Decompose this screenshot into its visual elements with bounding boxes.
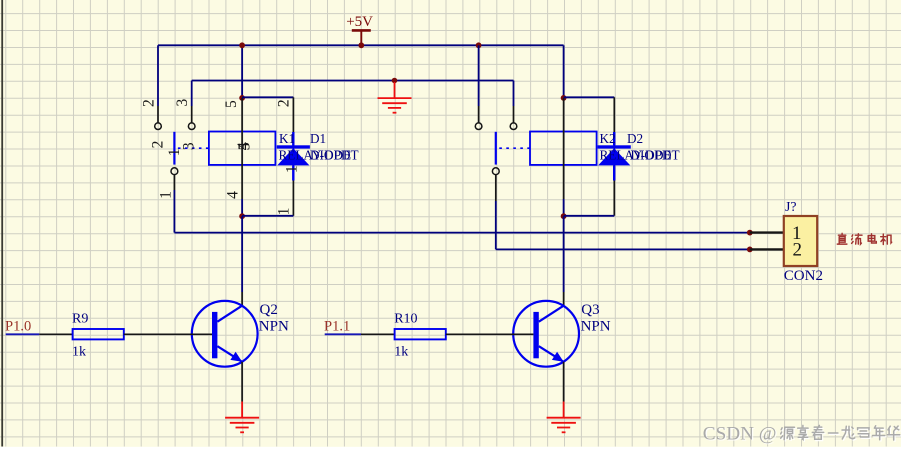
pin J1-2 (750, 248, 784, 250)
svg-text:R9: R9 (72, 312, 88, 327)
svg-text:D1: D1 (310, 131, 326, 146)
svg-text:P1.1: P1.1 (324, 319, 350, 335)
svg-text:1: 1 (284, 165, 301, 173)
svg-text:3: 3 (174, 98, 191, 106)
svg-text:1k: 1k (394, 345, 408, 360)
diode D1 (277, 132, 310, 181)
svg-text:Q3: Q3 (581, 302, 599, 318)
svg-text:3: 3 (181, 142, 198, 150)
wire D1 vertical (292, 97, 294, 216)
svg-text:DIODE: DIODE (631, 147, 672, 162)
wire GND rail (192, 80, 514, 82)
wire D2 top (564, 96, 615, 98)
relay K1 contact stub pin 2 (157, 45, 159, 106)
svg-text:1k: 1k (72, 345, 86, 360)
wire K1 armature pin 1 (173, 175, 175, 190)
wire D2 vertical (613, 97, 615, 216)
svg-text:NPN: NPN (259, 318, 289, 334)
relay K2 coil pin 5 / node (563, 45, 565, 98)
svg-text:2: 2 (149, 141, 166, 149)
power +5V symbol (346, 14, 373, 48)
watermark CSDN (703, 423, 778, 445)
relay K1 armature (173, 132, 175, 165)
relay K1 coil box (209, 132, 276, 165)
relay K2 linkage dashes (499, 147, 530, 149)
svg-text:J?: J? (785, 199, 797, 214)
relay K1 coil pin 4 wire (241, 199, 243, 216)
svg-text:5: 5 (235, 142, 254, 150)
relay K2 coil box (530, 132, 597, 165)
transistor Q3 (513, 301, 579, 367)
svg-text:CON2: CON2 (784, 268, 823, 284)
relay K2 contact stub pin 3 (513, 81, 515, 107)
svg-text:1: 1 (275, 208, 292, 216)
pin J1-1 (750, 231, 784, 233)
svg-text:4: 4 (224, 191, 241, 199)
svg-text:+5V: +5V (346, 14, 373, 30)
wire K2 armature pin 1 (495, 175, 497, 201)
resistor R9 (39, 333, 72, 335)
wire +5V rail (158, 44, 564, 46)
svg-text:P1.0: P1.0 (5, 319, 31, 335)
svg-text:NPN: NPN (581, 318, 611, 334)
wire motor net 2 (496, 248, 750, 250)
svg-text:2: 2 (276, 99, 293, 107)
wire motor net 1 (174, 232, 749, 234)
wire D1 bottom (242, 215, 293, 217)
svg-text:2: 2 (140, 99, 157, 107)
relay K2 contact stub pin 2 (476, 42, 482, 48)
svg-text:1: 1 (166, 149, 183, 157)
wire D2 bottom (564, 215, 615, 217)
svg-text:R10: R10 (394, 312, 417, 327)
svg-text:K1: K1 (279, 131, 295, 146)
wire Q2 emitter (241, 362, 243, 402)
svg-text:5: 5 (223, 100, 240, 108)
relay K2 armature (495, 132, 497, 165)
watermark 源享君-龙写年华 (781, 425, 901, 441)
wire K1 coil to Q2 collector (241, 216, 243, 292)
svg-text:CSDN @: CSDN @ (703, 423, 777, 444)
svg-text:DIODE: DIODE (310, 147, 351, 162)
relay K2 coil pin 4 wire (563, 199, 565, 216)
svg-text:1: 1 (158, 191, 175, 199)
wire K2 coil to Q3 collector (563, 216, 565, 292)
wire P1.1 (325, 333, 361, 335)
transistor Q2 (192, 301, 258, 367)
relay K1 contact stub pin 3 (191, 81, 193, 107)
svg-text:K2: K2 (600, 131, 616, 146)
connector J? CON2 (784, 216, 817, 266)
relay K1 linkage dashes (178, 147, 209, 149)
ground (Q2 emitter) (225, 402, 259, 433)
ground (top, on GND rail) (392, 78, 398, 84)
resistor R10 (361, 333, 395, 335)
diode D2 (598, 132, 631, 181)
wire P1.0 (6, 333, 40, 335)
wire Q3 emitter (563, 362, 565, 402)
relay K1 coil pin 5 / node (241, 45, 243, 98)
label 直流电机 (DC motor) (837, 233, 891, 244)
ground (Q3 emitter) (547, 402, 581, 433)
wire D1 top (242, 96, 293, 98)
svg-text:Q2: Q2 (260, 302, 278, 318)
svg-text:2: 2 (792, 240, 802, 261)
svg-text:D2: D2 (627, 131, 643, 146)
